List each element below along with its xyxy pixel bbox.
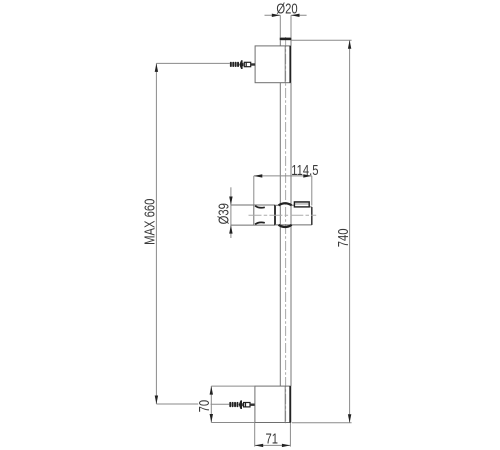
slider horizontal centerline [249,214,317,216]
Ø39 text [215,203,232,224]
bottom screw flange [239,400,243,409]
top bracket dark right edge [289,46,291,83]
740 text [335,229,352,248]
bottom wall bracket block [255,386,291,422]
Ø39 dimension line [230,187,232,238]
svg-text:Ø20: Ø20 [276,0,297,17]
MAX 660 dimension line [155,63,157,404]
top screw shank [251,63,255,65]
top screw axis extension line (MAX 660 top) [156,62,229,64]
slider top clamp arc [279,203,292,205]
rail tube left edge [279,40,281,386]
bottom screw shank [250,404,254,406]
slider cup left edge [253,205,255,225]
70 bottom arrow [210,414,213,423]
slider cup top rim arc [255,206,265,208]
Ø39 bottom extension line / cup bottom edge [231,224,275,226]
top screw wall plug ribs [230,62,239,67]
70 text [195,400,212,413]
Ø39 top arrow [229,197,232,206]
MAX 660 bottom arrow [155,396,158,405]
Ø20 dimension line [265,14,307,16]
740 bottom arrow [348,414,351,423]
114.5 left extension line [253,176,255,205]
114.5 right extension line [311,176,313,206]
slider cup/body divider [274,205,276,225]
slider body bottom edge [275,224,312,226]
rail top end cap [280,38,292,41]
71 left extension line [254,423,256,447]
slider bottom clamp arc [279,225,292,227]
740 top extension line [292,39,352,41]
top bracket inner tube line [284,46,286,83]
71 right extension line [289,423,291,447]
114.5 text [291,162,318,179]
114.5 left arrow [254,174,262,177]
svg-text:71: 71 [265,430,278,447]
70 bottom extension line [211,422,255,424]
71 right arrow [282,444,291,447]
Ø39 top extension line / cup top edge [231,204,275,206]
740 bottom extension line [292,422,352,424]
top screw flange [239,60,243,69]
slider body top edge [275,205,312,207]
rail tube right edge [290,40,292,386]
Ø20 extension lines [280,15,291,37]
slider cup bottom rim arc [255,222,265,224]
71 dimension line [255,444,291,446]
MAX 660 bottom extension line / bottom screw axis [156,403,229,405]
svg-text:70: 70 [195,400,212,413]
71 text [265,430,278,447]
bottom screw wall plug ribs [229,402,238,407]
Ø20 right arrow [291,14,300,17]
114.5 right arrow [303,174,312,177]
MAX 660 text [141,199,158,245]
740 dimension line [349,40,351,423]
rail vertical centerline [285,37,287,424]
70 dimension line [210,386,212,422]
Ø39 bottom arrow [229,225,232,234]
svg-text:MAX 660: MAX 660 [141,199,158,245]
svg-text:740: 740 [335,229,352,248]
slider push button [294,202,309,207]
Ø20 left arrow [272,14,281,17]
740 top arrow [348,40,351,49]
top screw head box [244,62,250,66]
Ø20 dimension text [276,0,297,17]
114.5 dimension line [254,175,312,177]
71 left arrow [255,444,264,447]
svg-text:Ø39: Ø39 [215,203,232,224]
bottom bracket dark right edge [289,386,291,422]
MAX 660 top arrow [155,63,158,72]
bottom bracket inner tube line [284,386,286,422]
70 top arrow [210,386,213,395]
slider body right edge [311,207,313,225]
svg-text:114.5: 114.5 [291,162,318,179]
top wall bracket block [255,46,291,83]
bottom screw head box [244,403,250,407]
70 top extension line [211,385,255,387]
